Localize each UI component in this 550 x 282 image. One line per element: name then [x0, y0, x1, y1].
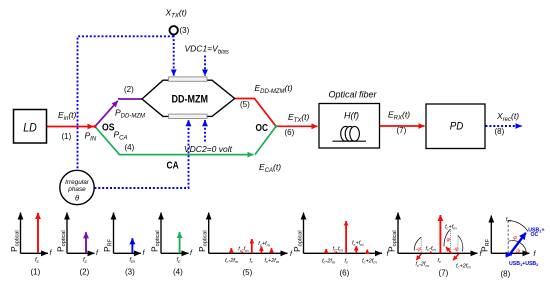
svg-text:fc-fm: fc-fm — [238, 247, 249, 253]
svg-text:(5): (5) — [240, 100, 250, 109]
svg-text:VDC2=0 volt: VDC2=0 volt — [184, 144, 233, 154]
svg-text:fc+2fm: fc+2fm — [265, 258, 280, 264]
svg-text:ψ: ψ — [516, 249, 520, 255]
svg-text:(2): (2) — [124, 85, 134, 94]
svg-text:(7): (7) — [397, 126, 407, 135]
svg-text:fc+2fm: fc+2fm — [456, 263, 471, 269]
svg-text:Irregular: Irregular — [65, 179, 90, 186]
svg-text:(6): (6) — [285, 128, 295, 137]
svg-text:fc-fm: fc-fm — [426, 246, 437, 252]
svg-text:(4): (4) — [125, 143, 135, 152]
svg-text:fc: fc — [250, 258, 254, 264]
svg-text:(4): (4) — [173, 268, 183, 277]
svg-text:fc: fc — [438, 258, 442, 264]
svg-text:fc-2fm: fc-2fm — [322, 258, 336, 264]
svg-text:(5): (5) — [243, 268, 253, 277]
svg-text:(6): (6) — [340, 269, 350, 278]
svg-text:φ: φ — [447, 237, 451, 243]
svg-text:LD: LD — [23, 120, 37, 134]
svg-text:(2): (2) — [80, 268, 90, 277]
svg-text:(8): (8) — [501, 269, 511, 278]
svg-text:fc+fm: fc+fm — [352, 241, 364, 247]
svg-text:θ: θ — [75, 194, 79, 203]
svg-text:fc-2fm: fc-2fm — [225, 258, 239, 264]
svg-text:OC: OC — [531, 232, 539, 238]
svg-text:fc: fc — [345, 258, 349, 264]
svg-text:H(f): H(f) — [344, 111, 359, 121]
svg-text:fc+fm: fc+fm — [445, 225, 457, 231]
svg-text:(3): (3) — [180, 26, 190, 35]
svg-text:φ: φ — [513, 235, 517, 241]
svg-text:fm: fm — [130, 258, 136, 264]
svg-text:(7): (7) — [439, 269, 449, 278]
svg-text:fc+fm: fc+fm — [258, 241, 270, 247]
svg-text:fc-2fm: fc-2fm — [416, 262, 430, 268]
svg-text:CA: CA — [167, 160, 180, 172]
svg-text:fm: fm — [506, 217, 512, 223]
svg-text:-φ: -φ — [416, 247, 422, 253]
svg-text:-φ: -φ — [453, 247, 459, 253]
svg-text:fc-fm: fc-fm — [333, 247, 344, 253]
svg-text:(8): (8) — [495, 127, 505, 136]
svg-text:phase: phase — [67, 186, 86, 193]
svg-text:DD-MZM: DD-MZM — [172, 94, 209, 106]
svg-text:Optical fiber: Optical fiber — [328, 90, 377, 100]
svg-text:(1): (1) — [62, 132, 72, 141]
svg-text:fc+2fm: fc+2fm — [362, 258, 377, 264]
svg-text:(3): (3) — [125, 268, 135, 277]
svg-text:OC: OC — [256, 122, 269, 134]
svg-text:USB1+USB2: USB1+USB2 — [509, 261, 539, 267]
svg-text:(1): (1) — [31, 268, 41, 277]
svg-text:PD: PD — [450, 121, 464, 133]
